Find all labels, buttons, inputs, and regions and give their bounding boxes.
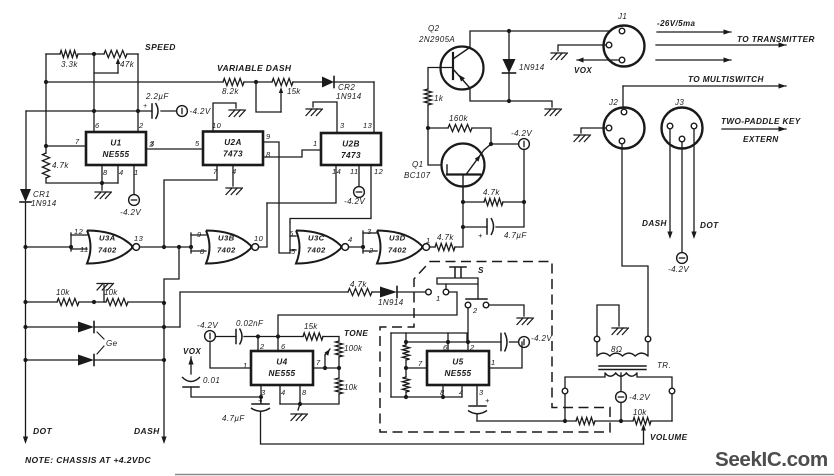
svg-text:-4.2V: -4.2V	[511, 129, 532, 138]
svg-text:TR.: TR.	[657, 361, 671, 370]
svg-text:1: 1	[491, 358, 495, 367]
wire	[472, 128, 491, 144]
wire	[79, 301, 106, 303]
node	[162, 358, 166, 362]
wire	[595, 420, 633, 422]
wire U5 threshold line	[406, 341, 501, 343]
svg-text:7: 7	[75, 137, 80, 146]
svg-text:2: 2	[138, 121, 144, 130]
arrow dash	[667, 232, 672, 240]
ground U2A pin10	[229, 110, 245, 117]
wire J3 dash	[669, 129, 671, 232]
node	[507, 29, 511, 33]
wire	[334, 81, 374, 83]
svg-text:8: 8	[302, 388, 307, 397]
wire J3 dot	[693, 129, 695, 232]
node	[361, 245, 365, 249]
wire	[463, 201, 484, 203]
svg-text:U1: U1	[110, 139, 121, 148]
wire 47k wiper loop	[94, 54, 118, 73]
switch S push key	[450, 267, 466, 277]
wire Q2 emitter to ground	[470, 88, 552, 107]
wire	[298, 404, 300, 410]
resistor 4.7k	[42, 153, 49, 178]
node	[489, 142, 493, 146]
node	[23, 325, 27, 329]
wire U2B pin12 to U3C pin6	[290, 165, 371, 222]
svg-text:7402: 7402	[217, 246, 236, 255]
wire	[363, 232, 377, 234]
svg-text:TONE: TONE	[344, 329, 368, 338]
flip-flop U2B 7473	[321, 133, 381, 165]
diode 1N914 keying	[380, 287, 397, 298]
svg-text:4: 4	[348, 235, 353, 244]
node	[100, 181, 104, 185]
wire pin6 stub	[277, 337, 279, 352]
wire pin4 stub	[117, 165, 119, 183]
resistor 10k tone	[335, 378, 342, 394]
connector J3	[662, 108, 703, 149]
svg-text:10k: 10k	[104, 288, 118, 297]
node pin6	[276, 334, 280, 338]
node	[162, 245, 166, 249]
wire	[101, 183, 103, 190]
svg-text:+: +	[478, 231, 483, 240]
resistor feedback	[576, 417, 595, 424]
speaker 8 ohm	[594, 336, 600, 342]
svg-text:4.7k: 4.7k	[437, 233, 454, 242]
op-amp U4 NE555	[251, 351, 313, 385]
svg-text:1N914: 1N914	[336, 92, 362, 101]
node	[337, 366, 341, 370]
wire	[78, 53, 104, 55]
wire	[71, 248, 87, 250]
wire U5 pin3	[476, 385, 478, 405]
capacitor 0.02nF	[235, 330, 237, 344]
svg-text:0.01: 0.01	[203, 376, 220, 385]
diode Ge 1	[78, 322, 94, 333]
wire U2B pin11	[358, 165, 360, 187]
wire U1 pin8 pin4 join	[46, 178, 118, 183]
resistor 15k tone	[303, 333, 323, 340]
wire Ge diode row 1	[26, 326, 79, 328]
wire U3B output to U2B pin14	[259, 203, 267, 247]
svg-text:10k: 10k	[633, 408, 647, 417]
wire secondary right	[637, 373, 672, 388]
footer line	[175, 474, 834, 476]
wire	[363, 250, 377, 252]
svg-text:VOX: VOX	[574, 66, 592, 75]
capacitor 2.2uF line	[26, 110, 152, 112]
potentiometer 15k	[272, 78, 293, 85]
node	[189, 245, 193, 249]
node	[23, 245, 27, 249]
wire	[280, 394, 339, 404]
node	[563, 419, 567, 423]
node	[522, 200, 526, 204]
svg-text:DASH: DASH	[134, 426, 160, 436]
svg-text:SPEED: SPEED	[145, 42, 176, 52]
capacitor 2.2uF	[151, 104, 153, 118]
terminal -4.2V U5	[519, 337, 530, 348]
wire J2 ground pin	[581, 128, 606, 133]
svg-text:DASH: DASH	[642, 219, 667, 228]
node	[23, 358, 27, 362]
terminal -4.2V U4	[205, 331, 216, 342]
svg-text:6: 6	[443, 343, 448, 352]
svg-text:Ge: Ge	[106, 339, 118, 348]
svg-text:U3B: U3B	[218, 234, 235, 243]
node pin2	[256, 334, 260, 338]
wire U1 pin7	[46, 145, 86, 147]
terminal -4.2V	[177, 106, 188, 117]
resistor 4.7k U3D out	[435, 243, 455, 250]
wire	[323, 337, 339, 342]
node	[92, 300, 96, 304]
svg-text:7473: 7473	[223, 150, 243, 159]
svg-text:10k: 10k	[344, 383, 358, 392]
node pin6	[92, 109, 96, 113]
diode 1N914 clamp	[503, 59, 516, 73]
svg-text:160k: 160k	[449, 114, 469, 123]
connector J1	[604, 26, 645, 67]
arrow to transmitter 1	[657, 31, 731, 33]
node	[441, 395, 445, 399]
capacitor 4.7uF U4	[252, 403, 269, 405]
svg-text:1: 1	[436, 294, 440, 303]
node	[426, 126, 430, 130]
wire Q1 emitter	[462, 186, 464, 202]
wire pin2 stub	[257, 337, 259, 352]
wire	[191, 234, 206, 236]
potentiometer 47k SPEED	[104, 50, 127, 57]
svg-text:7402: 7402	[307, 246, 326, 255]
arrow Q1 collector	[475, 155, 481, 162]
ground J1	[551, 53, 567, 60]
potentiometer 100k	[335, 341, 342, 357]
wire U2B pin3 to ground	[313, 102, 337, 133]
node	[404, 340, 408, 344]
wire switch pole1 to U4 pin6	[278, 292, 457, 337]
transistor Q1 BC107	[442, 144, 485, 187]
svg-text:13: 13	[134, 234, 144, 243]
wire U5 pin1	[489, 342, 522, 368]
svg-text:U3D: U3D	[389, 234, 406, 243]
resistor 10k a	[57, 298, 79, 305]
wire	[280, 91, 282, 112]
ground Q2 emitter	[545, 109, 561, 116]
wire	[510, 341, 519, 343]
resistor 4.7k Q1	[484, 198, 503, 205]
terminal -4.2V J3	[677, 253, 688, 264]
wire U4 pin7	[313, 367, 339, 369]
svg-text:4.7k: 4.7k	[350, 280, 367, 289]
svg-text:8.2k: 8.2k	[222, 87, 239, 96]
wire	[596, 342, 598, 356]
transformer secondary	[605, 373, 637, 376]
wire 100k wiper	[324, 355, 326, 368]
svg-text:0.02nF: 0.02nF	[236, 319, 264, 328]
wire	[564, 394, 566, 421]
wire U3D input bar	[362, 231, 364, 253]
arrow two-paddle key	[722, 128, 786, 130]
svg-text:U3C: U3C	[308, 234, 325, 243]
svg-text:U2A: U2A	[224, 138, 242, 147]
wire	[117, 62, 119, 73]
wire pin6 stub	[447, 333, 449, 351]
wire	[508, 31, 510, 59]
wire	[503, 201, 524, 203]
svg-text:7: 7	[316, 358, 321, 367]
wire	[372, 291, 380, 293]
wire divider top	[405, 333, 407, 345]
svg-text:DOT: DOT	[33, 426, 53, 436]
ground speaker	[612, 328, 628, 335]
svg-text:TO TRANSMITTER: TO TRANSMITTER	[737, 35, 815, 44]
wire to switch	[397, 291, 425, 293]
wire	[476, 414, 478, 421]
node pin6	[446, 340, 450, 344]
resistor divider lower	[402, 377, 409, 392]
wire U5 pin7 to divider	[406, 367, 427, 369]
capacitor U5 pin3	[469, 405, 486, 407]
svg-text:15k: 15k	[287, 87, 301, 96]
svg-text:3: 3	[367, 227, 372, 236]
svg-text:4.7k: 4.7k	[483, 188, 500, 197]
svg-text:11: 11	[350, 167, 359, 176]
wire	[622, 86, 624, 109]
arrow to transmitter 2	[656, 44, 786, 46]
node U1 pin7	[44, 144, 48, 148]
wire	[191, 250, 206, 252]
ground U2B pin3	[306, 109, 322, 116]
svg-text:8: 8	[103, 168, 108, 177]
svg-text:1: 1	[426, 236, 430, 245]
wire to U2B pin13	[373, 82, 375, 133]
node	[461, 225, 465, 229]
node	[254, 80, 258, 84]
wire	[405, 360, 407, 377]
wire variable dash rail	[46, 81, 223, 83]
wire U2A pin7 to U3A out	[164, 165, 217, 247]
wire -4.2V to pin1	[210, 341, 251, 368]
wire	[620, 402, 622, 421]
svg-text:NE555: NE555	[444, 369, 471, 378]
svg-text:CR1: CR1	[33, 190, 50, 199]
svg-text:7: 7	[418, 359, 423, 368]
wire J1 ground pin	[558, 45, 606, 51]
wire	[508, 72, 510, 101]
arrow DASH output	[161, 437, 166, 445]
arrow DOT output	[23, 437, 28, 445]
svg-text:47k: 47k	[120, 60, 135, 69]
wiper arrow 15k	[279, 87, 283, 93]
node	[44, 80, 48, 84]
coil speaker voice	[597, 353, 648, 356]
arrow VOX	[577, 59, 618, 61]
wire pin8 stub	[299, 385, 301, 404]
svg-text:12: 12	[374, 167, 384, 176]
svg-text:U3A: U3A	[99, 234, 116, 243]
wiper VOLUME	[641, 424, 646, 431]
switch S pole 2	[477, 284, 479, 299]
ground U1	[95, 192, 111, 199]
ground 10k junction	[97, 284, 113, 291]
wire VOX cap to pin3	[191, 387, 261, 397]
wire left branch vertical	[45, 54, 47, 146]
wire Ge diode row 2	[26, 359, 79, 361]
wire U1 pin3 to U2A pin5	[146, 148, 203, 150]
node	[162, 301, 166, 305]
wiper arrow 100k	[324, 349, 330, 356]
svg-text:J1: J1	[617, 12, 627, 21]
svg-text:5: 5	[195, 139, 200, 148]
wire to keying line	[180, 292, 348, 327]
wire divider loop left	[390, 333, 392, 397]
svg-text:-26V/5ma: -26V/5ma	[657, 19, 695, 28]
svg-text:J3: J3	[674, 98, 684, 107]
wire to Q1 emitter	[455, 186, 463, 247]
svg-text:7473: 7473	[341, 151, 361, 160]
terminal -4.2V U2B pin11	[354, 187, 365, 198]
svg-text:4.7µF: 4.7µF	[222, 414, 245, 423]
svg-text:1N914: 1N914	[519, 63, 545, 72]
svg-text:TO MULTISWITCH: TO MULTISWITCH	[688, 75, 764, 84]
dashed enclosure monitor unit	[380, 262, 610, 433]
wire 10k row	[26, 301, 58, 303]
ground U2A pin4	[226, 188, 242, 195]
wire J2 to speaker	[622, 144, 648, 336]
node	[177, 245, 181, 249]
wire	[290, 249, 296, 251]
wire U2B pin14 clock	[267, 165, 336, 203]
terminal -4.2V transformer	[616, 392, 627, 403]
wire U2A pin8 to U2B pin1	[263, 150, 321, 157]
svg-text:1N914: 1N914	[31, 199, 57, 208]
flip-flop U2A 7473	[203, 132, 263, 166]
wire 47k to U1 pin2	[137, 54, 139, 132]
wire pin4 stub	[279, 385, 281, 404]
gate U3B 7402	[206, 231, 251, 264]
svg-text:-4.2V: -4.2V	[197, 321, 218, 330]
wire U3A output	[140, 246, 191, 248]
ground J2	[574, 135, 590, 142]
potentiometer 10k volume	[633, 417, 651, 424]
wire pole2 to ground	[489, 305, 524, 316]
svg-text:U4: U4	[276, 358, 287, 367]
wire U2A pin4	[232, 165, 234, 186]
wire to -4.2V	[491, 143, 519, 145]
node pin2	[136, 109, 140, 113]
ground switch	[517, 318, 533, 325]
svg-text:VOX: VOX	[183, 347, 201, 356]
svg-text:Q1: Q1	[412, 160, 423, 169]
node	[298, 402, 302, 406]
transistor Q2 2N2905A	[441, 47, 484, 90]
svg-text:4: 4	[119, 168, 124, 177]
gate U3D 7402	[377, 231, 422, 264]
wire from DOT rail	[26, 246, 72, 248]
svg-text:5: 5	[291, 247, 296, 256]
wire U3A input bar	[70, 233, 72, 251]
svg-text:EXTERN: EXTERN	[743, 135, 779, 144]
svg-text:4: 4	[281, 388, 286, 397]
node	[69, 245, 73, 249]
node speed pot junction	[92, 52, 96, 56]
wire pin8 stub	[101, 165, 103, 183]
wire	[244, 81, 272, 83]
svg-text:VOLUME: VOLUME	[650, 433, 688, 442]
svg-text:2: 2	[259, 342, 265, 351]
node	[461, 200, 465, 204]
wire Q2 base	[428, 68, 453, 90]
trimmer capacitor 0.01 VOX	[190, 357, 192, 374]
svg-text:1N914: 1N914	[378, 298, 404, 307]
svg-text:VARIABLE DASH: VARIABLE DASH	[217, 63, 292, 73]
svg-text:+: +	[485, 396, 490, 405]
wire DOT rail	[25, 203, 27, 437]
svg-text:3.3k: 3.3k	[61, 60, 78, 69]
wire	[45, 146, 47, 153]
svg-text:100k: 100k	[344, 344, 363, 353]
terminal -4.2V Q1	[519, 139, 530, 150]
resistor 8.2k	[223, 78, 244, 85]
svg-text:CR2: CR2	[338, 83, 355, 92]
arrow to multiswitch	[623, 85, 786, 87]
svg-text:J2: J2	[608, 98, 618, 107]
diode CR2 1N914	[322, 77, 334, 88]
arrow to transmitter 3	[656, 59, 731, 61]
resistor 160k	[428, 127, 448, 129]
wire 1k to Q1 base	[428, 105, 447, 165]
wire U1 pin6 stub	[93, 73, 95, 132]
wire pole2 to U5 pin2	[467, 308, 469, 351]
svg-text:2.2µF: 2.2µF	[145, 92, 169, 101]
wire	[128, 301, 164, 303]
wire U2A pin10 to ground	[213, 103, 236, 132]
wire U4 pin3	[260, 385, 262, 403]
svg-text:1: 1	[313, 139, 317, 148]
wire contact to plate	[445, 284, 447, 289]
wire audio out to volume wiper	[261, 412, 644, 444]
wire bottom audio bus	[477, 420, 576, 422]
svg-text:S: S	[478, 266, 484, 275]
wire J3 center	[681, 142, 683, 253]
node	[162, 325, 166, 329]
svg-text:7402: 7402	[388, 246, 407, 255]
resistor 10k b	[106, 298, 128, 305]
svg-text:1k: 1k	[434, 94, 444, 103]
wire	[244, 336, 303, 338]
wire	[405, 392, 407, 397]
capacitor 4.7uF Q1	[463, 226, 487, 228]
wire speed line left	[46, 53, 60, 55]
wire pin8 stub	[442, 385, 444, 397]
wire U3B input bar	[190, 233, 192, 253]
wire	[647, 342, 649, 356]
svg-text:2: 2	[472, 306, 478, 315]
wire	[127, 53, 138, 55]
svg-text:U5: U5	[452, 358, 463, 367]
node	[619, 419, 623, 423]
wire U2A pin9 to U3C pin5	[263, 142, 290, 253]
emitter arrow Q2	[459, 75, 466, 82]
svg-text:4.7µF: 4.7µF	[504, 231, 527, 240]
wire U3D output	[430, 246, 435, 248]
wire center tap	[620, 373, 622, 392]
gate U3C 7402	[296, 231, 341, 264]
wire	[338, 357, 340, 378]
